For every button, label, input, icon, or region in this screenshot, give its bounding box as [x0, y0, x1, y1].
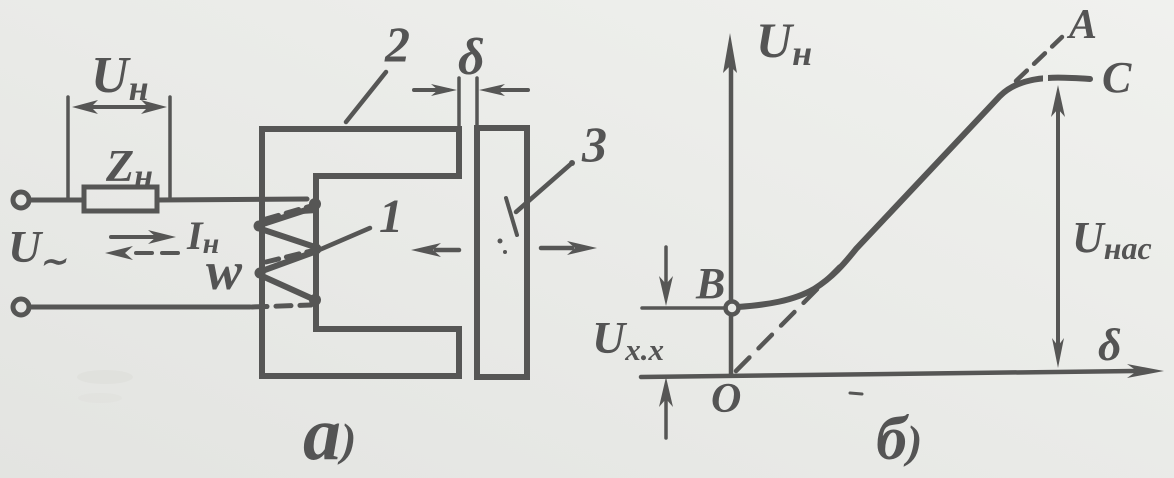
wire top: terminal to resistor: [29, 198, 84, 203]
voltage bracket Uн: left tick: [66, 97, 70, 200]
measure Uнас vertical line: [1056, 102, 1060, 356]
resistor Zн: [84, 187, 157, 211]
axis Uн (vertical, graph): [729, 64, 734, 374]
svg-text:B: B: [695, 259, 725, 308]
air gap arrow left (pointing right): [414, 88, 448, 92]
svg-text:δ: δ: [1098, 319, 1122, 370]
armature surface mark: [506, 198, 517, 235]
axis δ (horizontal, graph): [641, 371, 1135, 377]
terminal T1 (top input): [13, 192, 29, 208]
svg-text:A: A: [1066, 2, 1097, 48]
armature mark dots: [498, 239, 503, 244]
dashed line O-A (linear characteristic): [736, 256, 850, 371]
svg-text:δ: δ: [458, 29, 485, 86]
wire bottom: terminal to core: [29, 305, 250, 310]
leader line for label 2: [346, 72, 386, 122]
leader line for label 1: [319, 228, 370, 250]
coil 1: wire bumps: [254, 198, 322, 306]
air gap arrow right (pointing left): [500, 88, 528, 92]
level line at B: [642, 306, 726, 310]
svg-text:3: 3: [581, 116, 607, 172]
svg-text:C: C: [1102, 53, 1132, 102]
svg-text:б): б): [876, 405, 922, 473]
current arrow Iн (solid, rightward): [111, 235, 156, 239]
voltage bracket Uн: right tick: [168, 97, 172, 200]
wire top: resistor to coil: [157, 199, 307, 200]
measure Uх.х lower arrow (pointing up): [664, 400, 668, 438]
coil 1: solid front strands: [260, 208, 315, 299]
measure Uх.х upper arrow (pointing down): [664, 247, 668, 284]
armature 3 (movable plate): [477, 128, 527, 377]
voltage bracket Uн: double-headed arrow: [88, 105, 150, 109]
leader line for label 3: [516, 163, 572, 212]
svg-text:O: O: [711, 376, 741, 422]
terminal T2 (bottom input): [13, 299, 29, 315]
air gap extension line (armature side): [475, 78, 479, 132]
armature motion arrow (right): [541, 246, 572, 251]
wire bottom hidden behind core (dashed): [252, 305, 311, 307]
air gap extension line (core side): [457, 78, 461, 132]
measure Uнас top arrowhead (up): [1051, 85, 1065, 117]
curve B-C (real characteristic): [738, 78, 1090, 307]
current return arrow (dashed, leftward): [136, 251, 178, 255]
core 2 (C-shaped magnetic core): [262, 129, 459, 376]
armature motion arrow (left): [436, 248, 459, 253]
svg-text:w: w: [206, 241, 243, 301]
svg-text:2: 2: [384, 16, 410, 72]
svg-text:1: 1: [379, 190, 403, 243]
point B (open circle): [726, 302, 739, 315]
coil 1: hidden back strands (dashed): [266, 206, 311, 262]
scan mark below graph axis: [850, 393, 862, 394]
measure Uнас bottom arrowhead (down): [1052, 338, 1064, 368]
